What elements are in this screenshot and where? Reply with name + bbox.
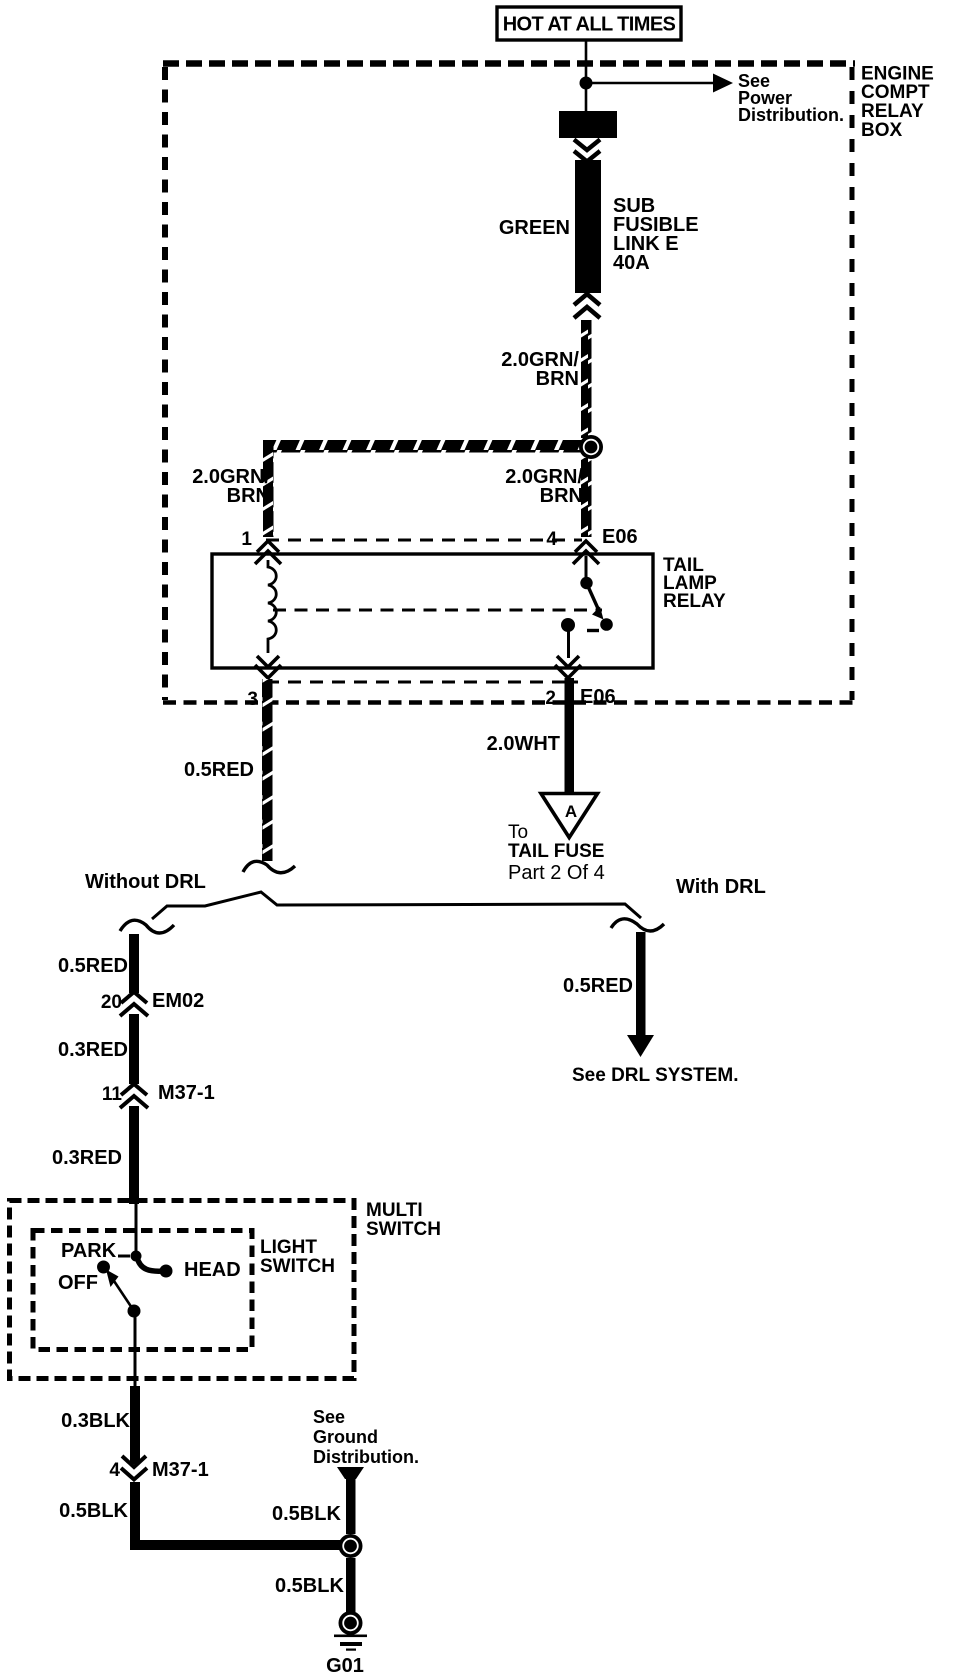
svg-text:BRN: BRN [536,368,579,390]
svg-text:EM02: EM02 [152,990,204,1012]
svg-text:4: 4 [109,1460,120,1481]
connector E06 label top [602,526,638,548]
wire 0.3BLK [130,1386,140,1464]
svg-text:Distribution.: Distribution. [738,105,844,125]
wire from HOT AT ALL TIMES to splice [585,40,588,113]
relay switch pivot [580,577,592,589]
svg-text:0.5RED: 0.5RED [184,759,254,781]
svg-text:Distribution.: Distribution. [313,1447,419,1467]
svg-text:SWITCH: SWITCH [366,1219,441,1240]
label 2.0GRN/BRN upper [501,349,579,390]
wire break symbol at 0.5RED end [243,861,295,872]
label 2.0GRN/BRN right [505,466,583,507]
svg-text:OFF: OFF [58,1272,98,1294]
svg-text:20: 20 [101,992,122,1013]
svg-text:E06: E06 [602,526,638,548]
label 0.5RED [184,759,254,781]
wire out of light switch [134,1311,137,1387]
svg-text:GREEN: GREEN [499,217,570,239]
relay output wire [567,625,570,658]
wire 0.5RED from pin 3 (braided) [262,679,273,861]
wire 0.5BLK elbow [130,1482,352,1550]
relay switch common wire [585,556,588,580]
svg-text:3: 3 [247,689,258,710]
svg-text:BRN: BRN [227,485,270,507]
label Without DRL [85,871,206,893]
label 0.5BLK left [59,1500,128,1522]
label EM02 [152,990,204,1012]
PARK contact tick [118,1255,130,1258]
tail lamp relay box [212,554,653,668]
label LIGHT SWITCH [260,1237,335,1277]
relay coil [268,560,276,653]
svg-text:See: See [313,1407,345,1427]
label G01 [326,1655,364,1677]
pin 2 label [545,688,556,709]
label With DRL [676,876,766,898]
label 0.5BLK middle [272,1503,341,1525]
wire 0.3RED lower [129,1106,139,1204]
light switch pivot [131,1251,142,1262]
svg-text:SWITCH: SWITCH [260,1256,335,1277]
svg-text:Without DRL: Without DRL [85,871,206,893]
svg-text:PARK: PARK [61,1240,117,1262]
svg-text:0.3RED: 0.3RED [58,1039,128,1061]
node HOT AT ALL TIMES [497,7,681,40]
label ENGINE COMPT RELAY BOX [861,64,934,142]
connector EM02 pin 20 chevrons [120,992,148,1016]
wire into light switch [135,1200,138,1252]
label 0.3BLK [61,1410,130,1432]
svg-text:0.5RED: 0.5RED [563,975,633,997]
label PARK [61,1240,117,1262]
wire 0.3RED upper [129,1014,139,1084]
svg-text:See DRL SYSTEM.: See DRL SYSTEM. [572,1065,738,1086]
wire 2.0GRN/BRN vertical (braided) [581,320,592,438]
selector arrow toward OFF [106,1270,132,1309]
pin 4 terminal chevrons [573,541,599,564]
pin 3 label [247,689,258,710]
relay linkage dashed line [273,609,602,612]
svg-text:A: A [565,802,577,821]
pin 1 label [241,529,252,550]
label HEAD [184,1259,241,1281]
wire 0.5RED right branch [636,932,646,1037]
OFF contact [97,1261,110,1274]
light switch arm to HEAD [137,1257,173,1278]
connector M37-1 pin 4 chevrons [121,1456,147,1480]
svg-text:E06: E06 [580,686,616,708]
wire 0.5RED left branch [129,934,139,993]
label 2.0GRN/BRN left [192,466,270,507]
label M37-1 [158,1082,215,1104]
svg-text:TAIL FUSE: TAIL FUSE [508,841,604,862]
ground feed wire [346,1476,356,1534]
wire arrow to See Power Distribution [586,74,733,93]
svg-text:2.0WHT: 2.0WHT [487,733,560,755]
wire 0.5BLK to ground [346,1558,356,1612]
svg-text:RELAY: RELAY [663,591,726,612]
splice node to power distribution [580,77,593,90]
connector E06 dashed line top [266,539,582,542]
pin 11 label [102,1084,123,1105]
label MULTI SWITCH [366,1200,441,1240]
fuse block terminal (solid rectangle) [559,111,617,138]
label TAIL LAMP RELAY [663,555,726,612]
pin 2 terminal chevrons [555,656,581,678]
label 0.5RED right [563,975,633,997]
label SUB FUSIBLE LINK E 40A [613,195,699,274]
connector chevrons below fuse block [574,140,600,162]
arrowhead to DRL system [627,1035,654,1057]
label OFF [58,1272,98,1294]
svg-text:40A: 40A [613,252,650,274]
svg-text:1: 1 [241,529,252,550]
branch brace [152,892,641,919]
svg-text:0.5BLK: 0.5BLK [275,1575,344,1597]
pin 3 terminal chevrons [255,656,281,678]
wire 2.0GRN/BRN horizontal run (braided) [263,440,585,453]
label 0.5BLK lower [275,1575,344,1597]
connector E06 label bottom [580,686,616,708]
svg-text:0.5RED: 0.5RED [58,955,128,977]
pin 4 label [109,1460,120,1481]
wire 2.0GRN/BRN right drop (braided) [581,458,592,537]
svg-text:BOX: BOX [861,120,903,141]
svg-text:0.5BLK: 0.5BLK [59,1500,128,1522]
label To TAIL FUSE Part 2 Of 4 [508,822,605,884]
splice ring G01 branch [339,1534,363,1558]
svg-text:HEAD: HEAD [184,1259,241,1281]
svg-text:With DRL: With DRL [676,876,766,898]
splice junction ring [579,435,603,459]
svg-text:M37-1: M37-1 [158,1082,215,1104]
light switch box (dashed) [33,1231,252,1350]
connector chevrons below fusible link [574,294,600,318]
svg-text:COMPT: COMPT [861,82,930,103]
engine compartment relay box (dashed) [163,64,855,703]
pin 20 label [101,992,122,1013]
label M37-1 lower [152,1459,209,1481]
svg-text:Ground: Ground [313,1427,378,1447]
connector E06 dashed line bottom [266,681,578,684]
label See DRL SYSTEM [572,1065,738,1086]
svg-text:Part 2 Of 4: Part 2 Of 4 [508,862,605,884]
relay switch arm [587,583,613,631]
svg-text:HOT AT ALL TIMES: HOT AT ALL TIMES [503,14,676,36]
wire break symbol right branch [611,919,664,931]
label 0.3RED upper [58,1039,128,1061]
multi switch box (dashed) [10,1201,355,1379]
pin 4 label [546,529,557,550]
ground feed arrowhead [337,1467,364,1479]
pin 1 terminal chevrons [255,541,281,564]
wire 2.0WHT [565,678,575,793]
svg-text:0.3RED: 0.3RED [52,1147,122,1169]
svg-text:MULTI: MULTI [366,1200,423,1221]
label See Power Distribution [738,71,844,125]
label See Ground Distribution [313,1407,419,1467]
svg-text:0.5BLK: 0.5BLK [272,1503,341,1525]
sub fusible link E 40A (solid bar) [575,160,601,293]
svg-text:BRN: BRN [540,485,583,507]
label GREEN [499,217,570,239]
svg-text:To: To [508,822,528,843]
wire break symbol left branch [120,920,174,933]
label 0.5RED left [58,955,128,977]
relay output contact [561,618,575,632]
ground ring [339,1611,363,1635]
svg-text:2: 2 [545,688,556,709]
off-page connector triangle A [541,794,598,838]
svg-text:RELAY: RELAY [861,101,924,122]
connector M37-1 pin 11 chevrons [120,1084,148,1108]
lower switch node [128,1305,141,1318]
svg-text:LIGHT: LIGHT [260,1237,317,1258]
wire 2.0GRN/BRN left drop (braided) [263,446,274,537]
svg-text:G01: G01 [326,1655,364,1677]
svg-text:0.3BLK: 0.3BLK [61,1410,130,1432]
svg-text:11: 11 [102,1084,123,1105]
svg-text:M37-1: M37-1 [152,1459,209,1481]
label 0.3RED lower [52,1147,122,1169]
relay fixed contact tick [587,629,599,632]
ground symbol bars [334,1635,367,1651]
label 2.0WHT [487,733,560,755]
